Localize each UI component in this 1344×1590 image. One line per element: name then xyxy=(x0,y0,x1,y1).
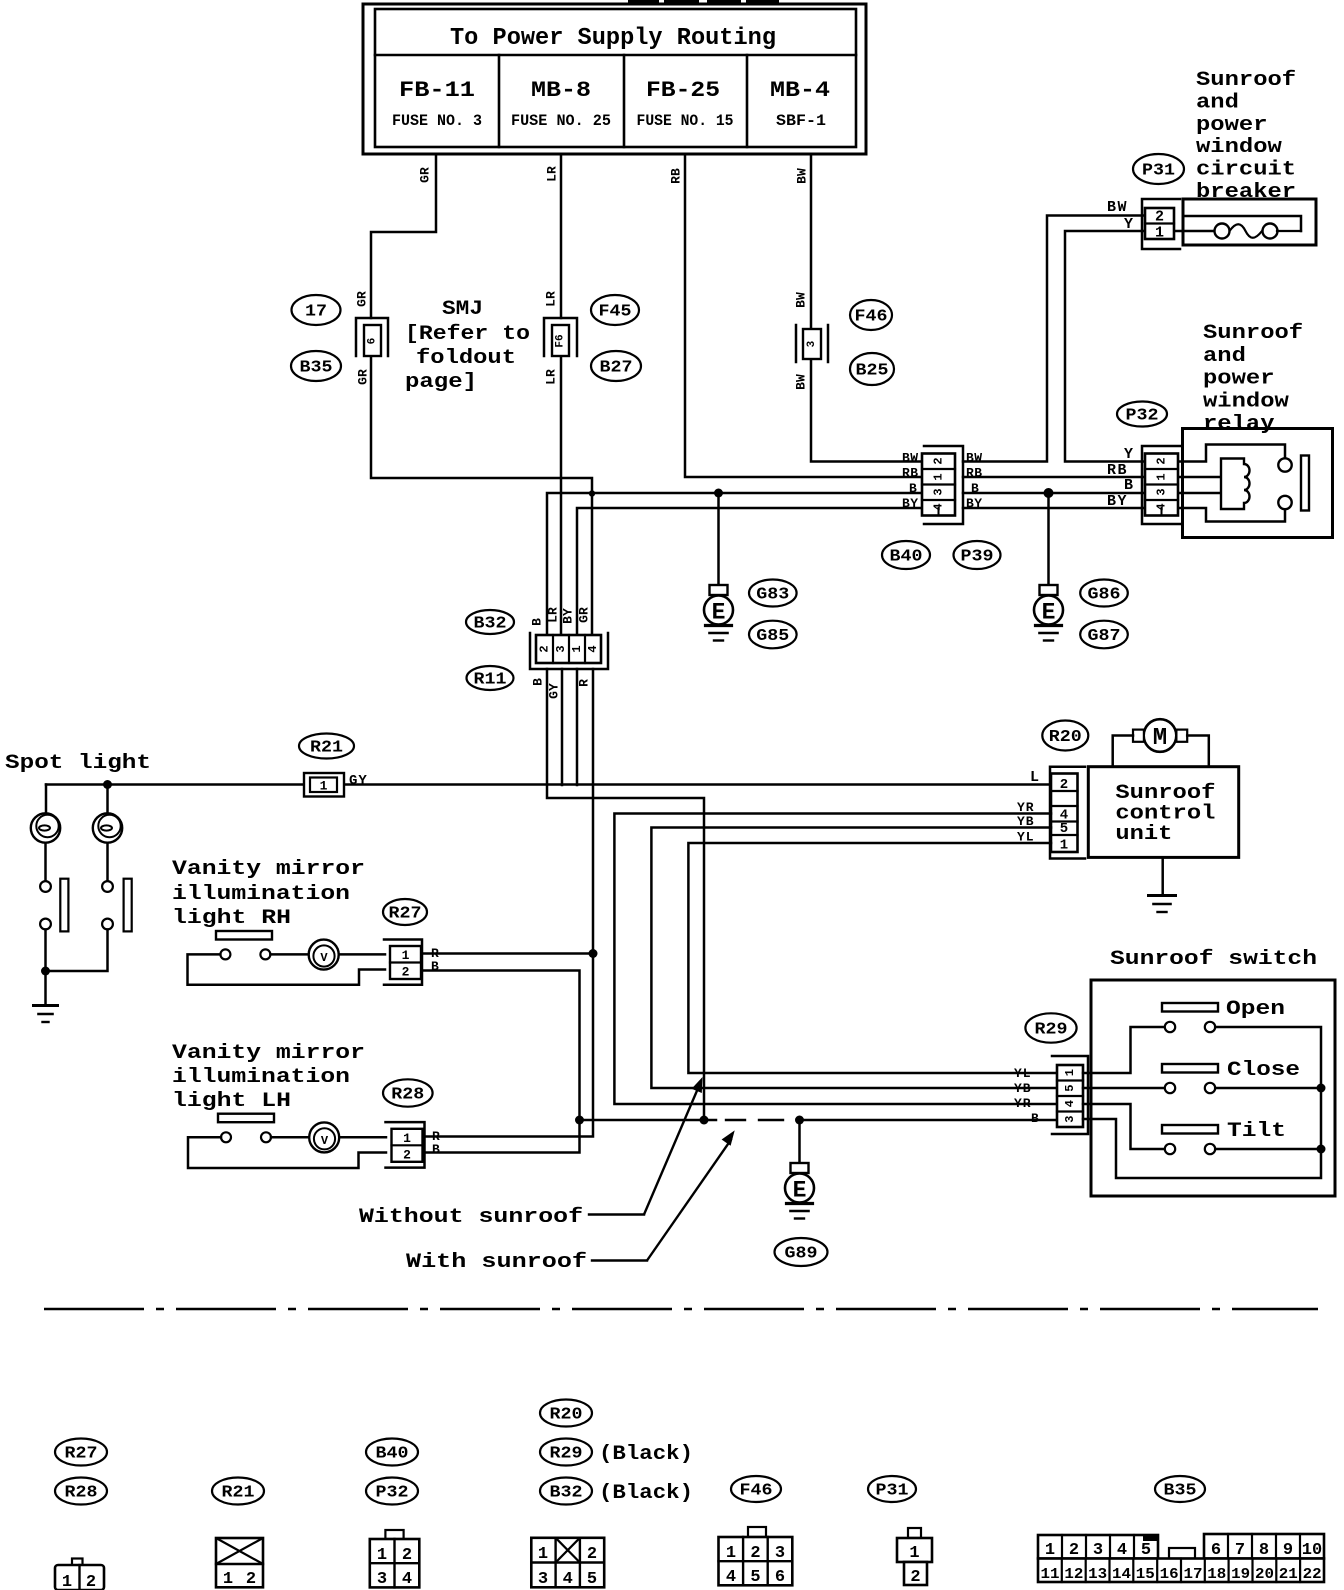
ground E G83/G85 xyxy=(710,585,728,595)
contact circle xyxy=(40,881,51,892)
connector B32/R11 xyxy=(530,633,608,669)
svg-text:3: 3 xyxy=(806,340,818,347)
spot lamp right xyxy=(93,813,122,842)
svg-text:MB-8: MB-8 xyxy=(531,78,591,103)
svg-text:FB-11: FB-11 xyxy=(399,78,475,103)
svg-text:GY: GY xyxy=(547,683,562,699)
svg-text:FUSE NO. 25: FUSE NO. 25 xyxy=(511,112,611,130)
wire BY row from B40 left to B32 pin 1 xyxy=(577,508,923,634)
svg-text:B35: B35 xyxy=(300,359,333,378)
sunroof motor xyxy=(1133,719,1187,752)
connector R29 xyxy=(1052,1056,1088,1134)
oval F46 xyxy=(850,300,892,330)
svg-text:RB: RB xyxy=(966,466,983,481)
svg-text:2: 2 xyxy=(1060,777,1068,793)
vanity mirror RH title xyxy=(172,858,365,930)
svg-text:3: 3 xyxy=(1063,1116,1077,1123)
svg-text:circuit: circuit xyxy=(1196,159,1296,182)
svg-text:1: 1 xyxy=(377,1546,387,1565)
svg-text:1: 1 xyxy=(570,645,584,652)
oval G86 xyxy=(1080,580,1128,607)
svg-text:GR: GR xyxy=(356,369,371,385)
svg-text:R27: R27 xyxy=(65,1445,98,1464)
wire lamp right to contact xyxy=(106,843,109,881)
SMJ connector F45/B27 xyxy=(544,318,577,356)
wire B from B32 pin2 down to ground rail xyxy=(547,669,704,1120)
svg-text:14: 14 xyxy=(1112,1566,1131,1583)
svg-text:4: 4 xyxy=(1155,503,1169,510)
svg-text:1: 1 xyxy=(1060,838,1068,854)
svg-text:2: 2 xyxy=(246,1570,256,1589)
switch bar right xyxy=(124,879,132,932)
svg-text:Open: Open xyxy=(1226,998,1285,1021)
svg-text:1: 1 xyxy=(223,1570,233,1589)
svg-text:LR: LR xyxy=(546,607,561,623)
svg-text:5: 5 xyxy=(587,1570,597,1589)
svg-text:1: 1 xyxy=(1045,1541,1055,1560)
junction dot close return xyxy=(1317,1084,1326,1093)
svg-text:13: 13 xyxy=(1088,1566,1107,1583)
svg-text:17: 17 xyxy=(305,303,327,322)
svg-text:R20: R20 xyxy=(550,1406,583,1425)
spot light / L horizontal wire xyxy=(46,783,1050,786)
svg-text:G89: G89 xyxy=(785,1245,818,1264)
wire BW from F46 down and right to connector B40 pin 2 xyxy=(811,358,923,462)
svg-text:15: 15 xyxy=(1136,1566,1155,1583)
svg-text:7: 7 xyxy=(1235,1541,1245,1560)
junction dot rail G89 xyxy=(795,1116,804,1125)
svg-text:power: power xyxy=(1203,368,1275,391)
contact circle right lower xyxy=(102,919,113,930)
svg-text:illumination: illumination xyxy=(172,883,350,906)
svg-text:and: and xyxy=(1196,91,1239,114)
junction dot rail left xyxy=(575,1116,584,1125)
motor wires xyxy=(1113,736,1209,767)
svg-text:B: B xyxy=(1031,1111,1039,1126)
svg-text:2: 2 xyxy=(910,1568,920,1587)
connector B40/P39 xyxy=(922,446,963,524)
svg-text:LR: LR xyxy=(545,166,560,182)
wire BW row from B40 to circuit breaker P31 xyxy=(963,216,1146,462)
svg-text:LR: LR xyxy=(544,369,559,385)
svg-text:RB: RB xyxy=(669,168,684,184)
oval R27 bottom xyxy=(55,1439,107,1466)
connector view B35 xyxy=(1038,1534,1324,1583)
relay P32 body xyxy=(1180,429,1333,538)
svg-text:To Power Supply Routing: To Power Supply Routing xyxy=(450,25,776,52)
sunroof switch box xyxy=(1091,980,1335,1196)
svg-text:4: 4 xyxy=(726,1568,736,1587)
svg-text:1: 1 xyxy=(62,1573,72,1590)
junction dot tilt return xyxy=(1317,1145,1326,1154)
svg-text:2: 2 xyxy=(587,1545,597,1564)
wire LR from SMJ F45 down to B32 pin 3 xyxy=(560,356,563,634)
svg-text:BW: BW xyxy=(902,451,919,466)
svg-text:2: 2 xyxy=(86,1573,96,1590)
wire R27 pin1 to R wire xyxy=(422,952,593,955)
wire YB control unit to switch xyxy=(651,828,1058,1089)
svg-text:FUSE NO. 3: FUSE NO. 3 xyxy=(392,112,482,130)
svg-text:19: 19 xyxy=(1231,1566,1250,1583)
svg-text:2: 2 xyxy=(1155,457,1169,464)
switch close key bar xyxy=(1162,1064,1218,1073)
svg-text:3: 3 xyxy=(554,645,568,652)
contact circle lower xyxy=(40,919,51,930)
connector F46/B25 xyxy=(796,325,828,362)
oval B40 bottom xyxy=(366,1439,418,1466)
svg-text:BY: BY xyxy=(902,496,919,511)
wire ground drop to G83 xyxy=(717,493,720,585)
junction dot R wire at R27 feed xyxy=(589,949,598,958)
svg-text:1: 1 xyxy=(1063,1069,1077,1076)
svg-text:6: 6 xyxy=(1211,1541,1221,1560)
svg-text:Vanity mirror: Vanity mirror xyxy=(172,1042,365,1065)
svg-text:B: B xyxy=(1124,477,1133,494)
oval R21 bottom xyxy=(212,1478,264,1505)
svg-text:Sunroof switch: Sunroof switch xyxy=(1110,948,1317,971)
oval P31 xyxy=(1133,154,1184,184)
svg-text:B25: B25 xyxy=(856,362,889,381)
svg-text:page]: page] xyxy=(405,371,477,394)
page top tick marks xyxy=(628,0,779,3)
junction dot rail B-wire xyxy=(700,1116,709,1125)
wire LR from MB-8 down to SMJ connector F45 xyxy=(560,154,563,318)
svg-text:F46: F46 xyxy=(855,308,888,327)
wire Y from breaker pin 1 down to relay pin 2 xyxy=(1065,231,1146,462)
dashed rail segment xyxy=(726,1119,783,1121)
svg-text:B32: B32 xyxy=(550,1484,583,1503)
wire L from B32 pin1 down to L line xyxy=(576,669,579,785)
oval R29 bottom xyxy=(540,1439,592,1466)
svg-text:Without sunroof: Without sunroof xyxy=(359,1206,583,1229)
oval R28 bottom xyxy=(55,1478,107,1505)
ground E G86/G87 xyxy=(1040,585,1058,595)
svg-text:1: 1 xyxy=(726,1544,736,1563)
control unit ground xyxy=(1149,894,1176,897)
vanity LH contact right xyxy=(261,1132,271,1142)
oval R20 xyxy=(1042,721,1088,751)
svg-text:4: 4 xyxy=(1117,1541,1127,1560)
fuse MB-4 label xyxy=(770,78,830,130)
svg-text:E: E xyxy=(1042,600,1056,626)
svg-text:LR: LR xyxy=(544,291,559,307)
svg-text:BW: BW xyxy=(1107,199,1128,216)
svg-text:3: 3 xyxy=(775,1544,785,1563)
switch open wiring xyxy=(1083,1027,1165,1073)
svg-text:BY: BY xyxy=(561,608,576,624)
svg-text:R11: R11 xyxy=(474,671,507,690)
wire junction to ground xyxy=(44,971,47,1004)
svg-text:GY: GY xyxy=(349,773,368,789)
oval R29 xyxy=(1025,1013,1076,1042)
vanity LH lamp bar xyxy=(218,1114,274,1123)
switch open contacts xyxy=(1165,1022,1215,1032)
svg-text:FB-25: FB-25 xyxy=(646,78,720,103)
svg-text:GR: GR xyxy=(418,167,433,183)
wire to spot lamp right xyxy=(106,785,109,814)
svg-text:window: window xyxy=(1196,136,1282,159)
wire B row ground drop right xyxy=(1047,493,1050,585)
vanity LH loop wire xyxy=(188,1137,386,1168)
vanity LH contact left xyxy=(221,1132,231,1142)
oval B32 bottom xyxy=(540,1478,592,1505)
svg-text:window: window xyxy=(1203,390,1289,413)
svg-text:Close: Close xyxy=(1227,1059,1300,1082)
oval 17 xyxy=(292,295,341,325)
svg-text:3: 3 xyxy=(538,1570,548,1589)
svg-text:YL: YL xyxy=(1014,1066,1032,1081)
vanity RH contact right xyxy=(260,949,270,959)
wire GR from FB-11 down to SMJ connector xyxy=(371,154,436,318)
oval B35 bottom xyxy=(1155,1476,1205,1502)
wire RB from FB-25 down and right to connector B40 pin 1 xyxy=(685,154,923,477)
contact circle right xyxy=(102,881,113,892)
svg-text:16: 16 xyxy=(1160,1566,1179,1583)
oval R27 xyxy=(383,899,427,925)
svg-text:F6: F6 xyxy=(555,334,567,347)
wire B row from B40 left to B32 pin 2 xyxy=(547,493,923,634)
connector view P31 xyxy=(897,1528,932,1587)
svg-text:21: 21 xyxy=(1279,1566,1298,1583)
svg-text:E: E xyxy=(793,1178,807,1204)
oval F45 xyxy=(591,295,639,325)
svg-text:(Black): (Black) xyxy=(599,1443,693,1466)
svg-text:light RH: light RH xyxy=(172,907,291,930)
svg-text:B32: B32 xyxy=(474,615,507,634)
junction dot spot ground xyxy=(41,967,50,976)
svg-text:R28: R28 xyxy=(65,1484,98,1503)
vanity RH lamp wire xyxy=(270,953,385,956)
svg-text:2: 2 xyxy=(402,1546,412,1565)
svg-text:2: 2 xyxy=(1069,1541,1079,1560)
wire BY row from B40 to relay pin 4 xyxy=(963,507,1146,510)
junction dot B row ground tap xyxy=(714,489,723,498)
svg-text:B40: B40 xyxy=(376,1445,409,1464)
svg-text:GR: GR xyxy=(577,607,592,623)
wire right branch to ground junction xyxy=(46,930,108,972)
svg-text:2: 2 xyxy=(402,965,410,980)
svg-text:P32: P32 xyxy=(376,1484,409,1503)
fuse FB-11 label xyxy=(392,78,482,130)
oval R20 bottom xyxy=(540,1400,592,1427)
oval B40 xyxy=(882,541,930,569)
svg-text:1: 1 xyxy=(909,1544,919,1563)
svg-text:V: V xyxy=(320,951,328,965)
svg-text:BW: BW xyxy=(794,292,809,308)
svg-text:P31: P31 xyxy=(1142,162,1175,181)
sunroof control unit text xyxy=(1115,782,1215,846)
switch bar left xyxy=(60,879,68,932)
oval B27 xyxy=(591,351,641,381)
svg-text:5: 5 xyxy=(1060,821,1068,837)
svg-text:Y: Y xyxy=(1124,216,1133,233)
svg-text:22: 22 xyxy=(1303,1566,1322,1583)
circuit breaker title xyxy=(1196,69,1296,204)
svg-text:R: R xyxy=(577,679,592,687)
vanity RH lamp bar xyxy=(216,931,272,940)
svg-text:Spot light: Spot light xyxy=(5,752,151,775)
svg-text:B: B xyxy=(531,678,546,686)
svg-text:B35: B35 xyxy=(1164,1482,1197,1501)
wire B row from B40 to relay pin 3 xyxy=(963,492,1146,495)
connector on breaker P31 xyxy=(1142,199,1180,249)
connector R21 on spot light wire xyxy=(304,773,344,797)
svg-text:R21: R21 xyxy=(222,1484,255,1503)
switch close wiring xyxy=(1083,1087,1165,1090)
wire GY from B32 pin3 down to spot light line xyxy=(561,669,564,785)
svg-text:F45: F45 xyxy=(599,303,632,322)
svg-text:and: and xyxy=(1203,345,1246,368)
svg-text:M: M xyxy=(1153,725,1167,752)
connector view F46 xyxy=(719,1527,793,1587)
svg-text:BW: BW xyxy=(794,374,809,390)
vanity LH lamp xyxy=(309,1122,339,1152)
svg-text:10: 10 xyxy=(1302,1541,1322,1560)
svg-text:P31: P31 xyxy=(876,1482,909,1501)
svg-text:G87: G87 xyxy=(1088,627,1121,646)
oval R21 xyxy=(299,734,354,759)
switch tilt contacts xyxy=(1165,1144,1215,1154)
vanity RH lamp xyxy=(309,940,339,970)
oval P39 xyxy=(954,541,1001,569)
circuit breaker P31 body xyxy=(1174,199,1316,245)
connector view B32/R29 xyxy=(531,1538,604,1589)
oval F46 bottom xyxy=(731,1476,781,1502)
wire contact to junction xyxy=(44,930,47,972)
svg-text:4: 4 xyxy=(586,645,600,652)
connector R27 xyxy=(384,940,422,985)
ground E G89 xyxy=(791,1163,809,1173)
svg-text:R20: R20 xyxy=(1049,728,1082,747)
svg-text:R29: R29 xyxy=(550,1445,583,1464)
svg-text:G86: G86 xyxy=(1088,586,1121,605)
vanity mirror LH title xyxy=(172,1042,365,1113)
svg-text:FUSE NO. 15: FUSE NO. 15 xyxy=(637,112,734,130)
oval P32 xyxy=(1117,402,1167,427)
label Without sunroof xyxy=(359,1206,644,1229)
oval B25 xyxy=(850,353,894,385)
svg-text:17: 17 xyxy=(1183,1566,1202,1583)
svg-text:B40: B40 xyxy=(890,548,923,567)
wire R27 pin2 down to ground rail xyxy=(422,971,580,1121)
vanity RH contact left xyxy=(220,949,230,959)
svg-text:Vanity mirror: Vanity mirror xyxy=(172,858,365,881)
connector on relay P32 xyxy=(1142,446,1180,524)
svg-text:G83: G83 xyxy=(756,586,789,605)
spot lamp left xyxy=(31,813,60,842)
switch common return wiring xyxy=(1083,1027,1321,1178)
oval G83 xyxy=(749,580,797,607)
svg-text:4: 4 xyxy=(563,1570,573,1589)
svg-text:unit: unit xyxy=(1115,823,1172,846)
connector view R27/R28 xyxy=(55,1559,104,1590)
oval G89 xyxy=(775,1238,828,1266)
svg-text:B: B xyxy=(432,1142,440,1157)
svg-text:3: 3 xyxy=(1093,1541,1103,1560)
svg-text:11: 11 xyxy=(1041,1566,1060,1583)
SMJ connector 17/B35 xyxy=(356,318,388,356)
svg-text:YB: YB xyxy=(1014,1081,1032,1096)
SMJ note text xyxy=(405,298,530,394)
svg-text:R21: R21 xyxy=(310,739,343,758)
spot light ground xyxy=(34,1004,58,1007)
svg-text:1: 1 xyxy=(403,1131,411,1146)
svg-text:4: 4 xyxy=(402,1570,412,1589)
svg-text:1: 1 xyxy=(1155,225,1164,242)
oval B32 xyxy=(466,610,514,634)
svg-text:BW: BW xyxy=(795,168,810,184)
power supply routing box xyxy=(363,4,866,154)
svg-text:B: B xyxy=(909,481,917,496)
svg-text:8: 8 xyxy=(1259,1541,1269,1560)
svg-text:1: 1 xyxy=(402,948,410,963)
connector view B40/P32 xyxy=(370,1530,420,1589)
switch close contacts xyxy=(1165,1083,1215,1093)
connector view R21 xyxy=(216,1538,263,1589)
svg-text:2: 2 xyxy=(403,1147,411,1162)
svg-text:2: 2 xyxy=(1155,209,1164,226)
svg-text:18: 18 xyxy=(1207,1566,1226,1583)
svg-text:B: B xyxy=(530,618,545,626)
svg-text:2: 2 xyxy=(750,1544,760,1563)
svg-text:breaker: breaker xyxy=(1196,181,1296,204)
svg-text:MB-4: MB-4 xyxy=(770,78,830,103)
svg-text:B27: B27 xyxy=(600,359,633,378)
wire G89 ground drop xyxy=(798,1120,801,1163)
oval R28 xyxy=(383,1079,433,1106)
svg-text:3: 3 xyxy=(932,488,946,495)
connector R28 xyxy=(386,1122,425,1168)
fuse FB-25 label xyxy=(637,78,734,130)
fuse MB-8 label xyxy=(511,78,611,130)
relay title xyxy=(1203,322,1303,436)
svg-text:BY: BY xyxy=(1107,493,1128,510)
svg-text:1: 1 xyxy=(538,1545,548,1564)
svg-text:Tilt: Tilt xyxy=(1227,1120,1286,1143)
oval B35 xyxy=(291,351,341,381)
wire YL control unit to switch xyxy=(688,843,1058,1073)
svg-text:G85: G85 xyxy=(756,627,789,646)
vanity RH loop wire xyxy=(188,954,386,984)
connector R20 on control unit xyxy=(1050,767,1085,859)
svg-text:3: 3 xyxy=(377,1570,387,1589)
svg-text:R27: R27 xyxy=(389,905,422,924)
junction dot GR/B row xyxy=(589,490,595,496)
svg-text:power: power xyxy=(1196,114,1268,137)
sunroof control unit box xyxy=(1088,767,1238,858)
svg-text:R29: R29 xyxy=(1035,1021,1068,1040)
oval R11 xyxy=(467,666,514,690)
oval G87 xyxy=(1080,621,1128,649)
svg-text:(Black): (Black) xyxy=(599,1482,693,1505)
svg-text:GR: GR xyxy=(355,291,370,307)
svg-text:1: 1 xyxy=(1155,473,1169,480)
svg-text:9: 9 xyxy=(1283,1541,1293,1560)
svg-text:P32: P32 xyxy=(1126,407,1159,426)
svg-text:P39: P39 xyxy=(961,548,994,567)
svg-text:6: 6 xyxy=(775,1568,785,1587)
wire RB row from B40 to relay pin 1 xyxy=(963,476,1146,479)
svg-text:1: 1 xyxy=(320,779,328,794)
wire R from B32 pin4 down to vanity lamps xyxy=(424,669,593,1137)
svg-text:5: 5 xyxy=(750,1568,760,1587)
svg-text:foldout: foldout xyxy=(416,347,516,370)
svg-text:BW: BW xyxy=(966,451,983,466)
svg-text:YR: YR xyxy=(1014,1096,1032,1111)
svg-text:Y: Y xyxy=(1124,446,1133,463)
ground rail wire xyxy=(580,1119,717,1122)
arrow with sunroof xyxy=(647,1130,735,1260)
